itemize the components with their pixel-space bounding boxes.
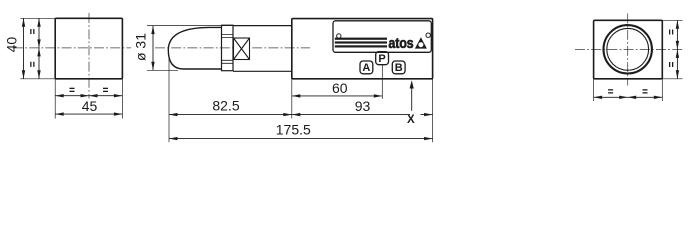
extension line at body left (x=291.8)	[291, 79, 293, 118]
dimension 175.5: arrows	[169, 137, 178, 140]
right view: side extension lines	[662, 19, 682, 21]
dimension 40: top arrow	[22, 18, 25, 27]
left view: vertical centerline	[88, 13, 90, 99]
bottom equality marks	[70, 88, 109, 92]
right view: vertical centerline	[627, 14, 629, 86]
dimension ø31: arrows	[151, 26, 154, 34]
svg-text:A: A	[362, 62, 370, 74]
right bottom equality marks	[608, 89, 647, 93]
side view: main axis centerline	[155, 47, 310, 49]
atos logo bars	[335, 38, 387, 48]
left equality marks (rotated =)	[30, 29, 34, 67]
svg-text:60: 60	[332, 80, 348, 96]
right side equality arrows	[676, 20, 679, 29]
X axis arrow	[411, 84, 413, 111]
dimension 45: arrows	[55, 112, 64, 115]
port box P	[376, 52, 389, 65]
left view: top extension line	[20, 17, 55, 19]
dimension 60: dimension line	[292, 95, 383, 97]
right side equality marks (rotated =)	[669, 30, 673, 68]
name plate	[333, 21, 431, 53]
dimension ø31: dimension line	[152, 26, 154, 71]
port box A	[360, 61, 373, 74]
svg-text:93: 93	[355, 98, 371, 114]
dimension ø31: bottom extension line	[147, 69, 178, 71]
dimension 40: bottom arrow	[22, 70, 25, 79]
right side equality dimension line	[676, 20, 678, 79]
right view: inner circle	[607, 28, 649, 70]
svg-text:X: X	[407, 114, 415, 126]
extension line at body right (x=432.6)	[432, 79, 434, 142]
lock nut collar	[222, 25, 234, 70]
dimension 93: dimension line (gap at X)	[292, 114, 433, 116]
atos logo triangle	[415, 37, 427, 48]
right view: outer circle	[604, 25, 652, 73]
bottom equality dimension line	[55, 95, 122, 97]
cap dome outline	[168, 27, 222, 69]
left view: horizontal centerline	[13, 47, 131, 49]
dimension 82.5: arrows	[169, 113, 178, 116]
svg-text:B: B	[395, 62, 403, 74]
svg-text:atos: atos	[388, 34, 414, 51]
sleeve tube	[233, 26, 292, 72]
dimension 82.5: dimension line	[169, 114, 292, 116]
left view: bottom extension lines for width dims	[54, 79, 56, 119]
left view: square body outline	[55, 18, 122, 79]
right view: horizontal centerline	[575, 48, 683, 50]
valve body outline	[292, 19, 433, 79]
plate screw left	[337, 34, 341, 38]
extension line at P axis (x=382.3)	[381, 79, 383, 99]
dimension 45: dimension line	[55, 113, 122, 115]
right view: square outline	[594, 20, 663, 79]
dimension ø31: top extension line	[147, 25, 233, 27]
right bottom equality arrows	[594, 96, 603, 99]
left equality dim arrows	[37, 18, 40, 27]
dimension 93: arrows	[292, 113, 301, 116]
svg-text:40: 40	[4, 37, 20, 53]
port P axis line	[381, 65, 383, 79]
dimension 60: arrows	[292, 94, 301, 97]
left view: bottom extension line	[20, 78, 55, 80]
port box B	[392, 61, 405, 74]
svg-text:175.5: 175.5	[276, 122, 311, 138]
adjustment screw X-box	[234, 38, 250, 60]
dimension 175.5: dimension line	[169, 138, 433, 140]
svg-text:P: P	[378, 53, 385, 65]
extension line at cap left (x=169)	[168, 56, 170, 143]
left equality dimension line (vertical)	[38, 18, 40, 79]
svg-text:82.5: 82.5	[212, 98, 239, 114]
right view bottom equality dimension line	[594, 96, 663, 98]
dimension 40: dimension line	[23, 18, 25, 79]
collar facet lines	[222, 35, 234, 64]
svg-text:ø 31: ø 31	[133, 33, 149, 61]
right view: bottom extension lines	[593, 79, 595, 101]
svg-text:45: 45	[82, 98, 98, 114]
bottom equality dim arrows	[55, 94, 64, 97]
plate screw right	[426, 33, 430, 37]
